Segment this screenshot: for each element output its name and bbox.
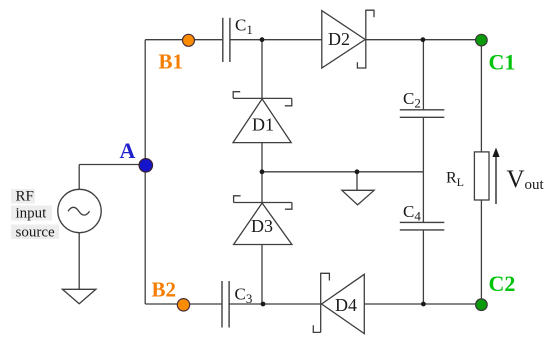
- junction between D1 and D3: [260, 169, 265, 174]
- wire C2/C4 branch mid-upper (C2 plate to middle wire): [422, 117, 424, 172]
- wire C2/C4 branch upper (top rail to C2 plate): [422, 40, 424, 110]
- node C2: [476, 299, 488, 311]
- svg-text:input: input: [16, 205, 48, 221]
- wire top rail left (B1 corner to C1 left plate): [145, 39, 222, 41]
- svg-text:D3: D3: [251, 216, 273, 236]
- diode D2: [322, 10, 374, 69]
- wire middle horizontal (mid junction to C2/C4 branch): [262, 171, 423, 173]
- RF source circle: [58, 189, 101, 232]
- svg-text:out: out: [525, 177, 545, 193]
- svg-text:RF: RF: [16, 189, 34, 205]
- node A: [139, 159, 152, 172]
- junction at ground stem: [355, 169, 360, 174]
- wire C2/C4 branch mid-lower (middle wire to C4 plate): [422, 172, 424, 223]
- RF source sine: [68, 207, 90, 215]
- node C1: [476, 34, 488, 46]
- wire RL bottom down to node C2: [480, 200, 482, 304]
- capacitor C2: [400, 110, 445, 118]
- ground on middle wire stem: [356, 172, 358, 191]
- wire top rail right (D2 cathode to node C1): [366, 39, 481, 41]
- node B2: [177, 299, 189, 311]
- svg-text:B2: B2: [152, 278, 177, 302]
- wire node C1 down to RL top: [480, 40, 482, 152]
- svg-text:D2: D2: [328, 29, 350, 49]
- svg-text:source: source: [16, 225, 55, 241]
- capacitor C3: [222, 281, 229, 328]
- junction bottom of C4 branch: [421, 302, 426, 307]
- svg-text:D1: D1: [252, 115, 274, 135]
- wire mid junction down to D3 cathode: [261, 172, 263, 203]
- wire top rail middle (C1 right plate to D2 anode): [230, 39, 322, 41]
- wire D3 anode down to bottom rail: [261, 245, 263, 305]
- label RF input source background: [11, 189, 59, 239]
- svg-text:A: A: [120, 138, 136, 163]
- svg-text:C2: C2: [489, 271, 516, 296]
- svg-text:V: V: [507, 166, 525, 193]
- capacitor C1: [223, 18, 230, 62]
- wire C2/C4 branch lower (C4 plate to bottom rail): [422, 230, 424, 304]
- wire source branch horizontal from node A: [79, 164, 145, 166]
- svg-text:D4: D4: [335, 295, 357, 315]
- wire source top lead: [78, 165, 80, 190]
- ground under source: [62, 289, 96, 304]
- Vout arrow: [492, 148, 499, 205]
- resistor RL: [474, 152, 489, 200]
- wire bottom rail left (B2 corner to C3 left plate): [145, 303, 222, 305]
- junction after C1: [260, 37, 265, 42]
- wire bottom rail right (D4 anode to node C2): [364, 303, 481, 305]
- capacitor C4: [400, 222, 445, 230]
- wire D1 anode down to mid junction: [261, 143, 263, 172]
- wire source bottom lead to ground: [78, 233, 80, 290]
- diode D4: [313, 273, 364, 334]
- ground on middle wire: [342, 190, 374, 205]
- wire left vertical (B1 corner through A to B2 corner): [144, 40, 146, 304]
- diode D3: [234, 196, 292, 245]
- diode D1: [233, 92, 292, 143]
- svg-text:C1: C1: [489, 50, 516, 75]
- junction after C3: [261, 302, 266, 307]
- svg-text:B1: B1: [159, 49, 184, 73]
- wire bottom rail middle (C3 right plate to D4 cathode): [229, 303, 321, 305]
- node B1: [183, 34, 195, 46]
- wire C1-junction down to D1 cathode: [261, 40, 263, 99]
- junction top of C2 branch: [421, 37, 426, 42]
